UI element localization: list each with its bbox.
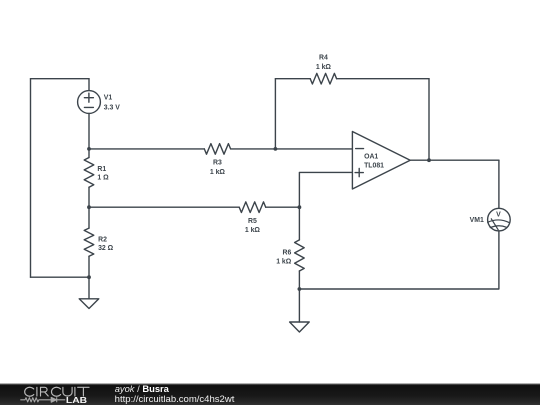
svg-text:3.3 V: 3.3 V <box>104 104 120 111</box>
resistor R4 1 kOhm <box>310 73 336 84</box>
wire top-left horizontal <box>31 78 90 80</box>
ground under R6 <box>290 289 310 332</box>
wire node to R3 <box>89 148 204 150</box>
wire node to R5 <box>89 206 239 208</box>
wire R4 right vertical drop <box>428 79 430 161</box>
wire R4 right horizontal <box>337 78 429 80</box>
wire output down to voltmeter <box>498 160 500 208</box>
node junction R1/R2/R5 <box>87 205 91 209</box>
resistor R5 1 kOhm <box>239 202 266 213</box>
svg-text:1 Ω: 1 Ω <box>97 175 109 182</box>
wire R4 left vertical riser <box>274 79 276 149</box>
svg-text:ayok / Busra: ayok / Busra <box>115 383 170 394</box>
wire op-amp output <box>410 159 499 161</box>
svg-text:V1: V1 <box>104 95 113 102</box>
svg-text:http://circuitlab.com/c4hs2wt: http://circuitlab.com/c4hs2wt <box>115 394 235 404</box>
node junction R2/ground/left rail <box>87 275 91 279</box>
svg-text:R1: R1 <box>97 166 106 173</box>
wire node to op-amp non-inverting input <box>299 172 352 207</box>
svg-text:1 kΩ: 1 kΩ <box>210 169 226 176</box>
resistor R6 1 kOhm <box>295 207 305 289</box>
node junction R6/bottom rail/ground <box>298 287 302 291</box>
node junction output/R4 <box>427 158 431 162</box>
svg-text:R4: R4 <box>319 55 328 62</box>
svg-text:1 kΩ: 1 kΩ <box>316 64 332 71</box>
resistor R2 32 Ohm <box>84 207 94 277</box>
voltmeter VM1 <box>488 208 511 231</box>
svg-text:R6: R6 <box>282 249 291 256</box>
node junction feedback/R4 left <box>274 147 278 151</box>
footer bar <box>0 384 540 405</box>
svg-text:32 Ω: 32 Ω <box>98 245 114 252</box>
wire left rail vertical <box>30 79 32 278</box>
svg-text:V: V <box>496 212 501 219</box>
svg-text:1 kΩ: 1 kΩ <box>276 259 292 266</box>
wire R3 to op-amp inverting input <box>231 148 353 150</box>
svg-text:R5: R5 <box>248 218 257 225</box>
wire R5 to node <box>266 206 300 208</box>
svg-text:TL081: TL081 <box>364 162 384 169</box>
node junction R5/R6/non-inverting <box>298 205 302 209</box>
svg-text:OA1: OA1 <box>364 154 378 161</box>
svg-text:R3: R3 <box>213 160 222 167</box>
CircuitLab logo resistor+diode glyph <box>20 397 65 402</box>
resistor R3 1 kOhm <box>204 144 230 155</box>
ground under R2 <box>79 277 99 308</box>
wire R4 left horizontal <box>275 78 310 80</box>
svg-text:R2: R2 <box>98 237 107 244</box>
wire bottom-left horizontal <box>31 276 90 278</box>
node junction V1/R1/R3 <box>87 147 91 151</box>
wire voltmeter to bottom rail <box>299 231 499 289</box>
svg-text:LAB: LAB <box>66 395 87 405</box>
resistor R1 1 Ohm <box>84 149 94 207</box>
svg-text:1 kΩ: 1 kΩ <box>245 227 261 234</box>
svg-text:VM1: VM1 <box>470 217 484 224</box>
op-amp OA1 TL081 <box>352 132 410 190</box>
CircuitLab logo wordmark CIRCUIT <box>25 387 89 396</box>
voltage source V1 3.3 V <box>78 79 101 149</box>
